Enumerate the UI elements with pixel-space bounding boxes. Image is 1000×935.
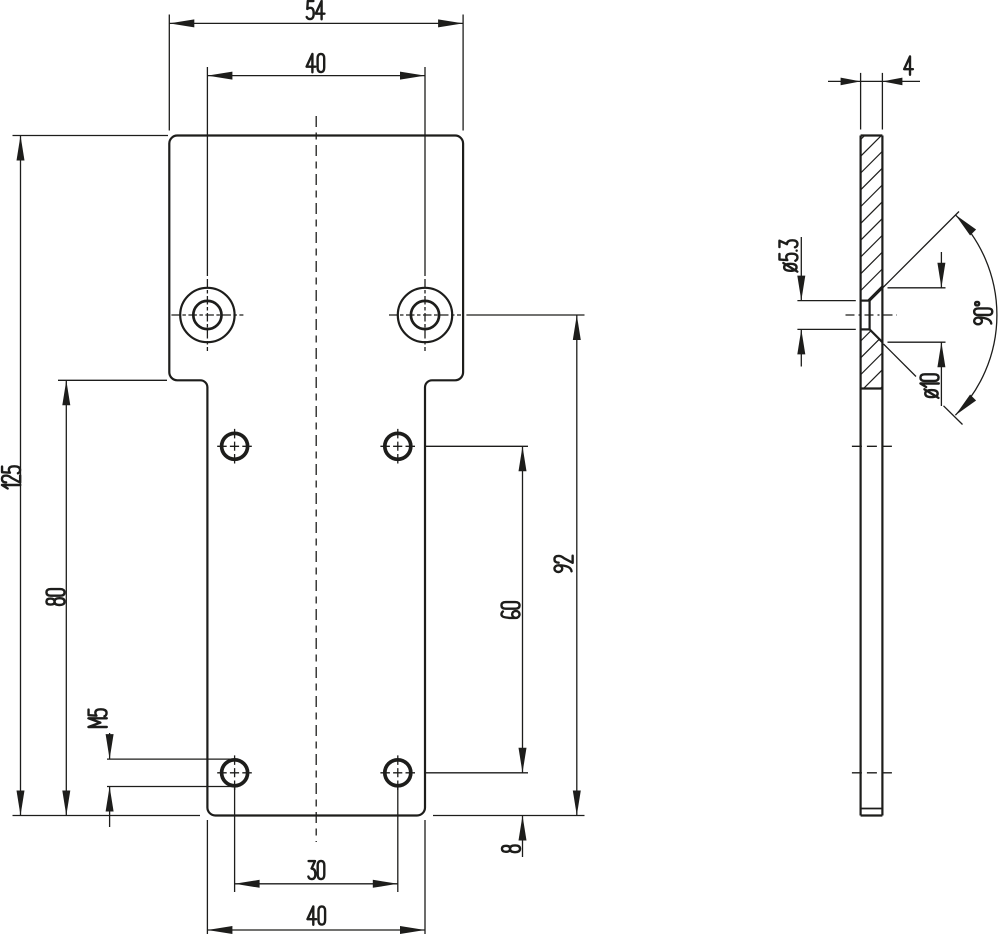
dimension 8 right bottom (522, 816, 524, 858)
label 40 bottom (308, 906, 326, 924)
dimension 4 top side view (828, 73, 920, 130)
label M5 (88, 709, 106, 727)
dimension 60 right (424, 446, 528, 773)
hole big right center cross (389, 279, 461, 351)
vertical centerline front view (315, 116, 317, 842)
hole small bottom-left center cross (217, 755, 252, 790)
hatching lines (845, 100, 900, 441)
plate outline front view (169, 136, 463, 816)
dimension 92 right (433, 315, 585, 816)
label 30 (308, 861, 324, 879)
side view outline (861, 136, 883, 816)
label 40 top (307, 54, 325, 72)
dimension 40 bottom (207, 820, 425, 934)
hole small top-right M5 (385, 433, 411, 459)
hole small top-right center cross (380, 429, 415, 464)
hidden hole line bottom side view (852, 772, 894, 774)
hole small bottom-right center cross (380, 755, 415, 790)
dimension M5 leader lines (107, 733, 231, 827)
dimension diameter 10 (884, 252, 946, 406)
hole small top-left M5 (222, 433, 248, 459)
dimension 40 top (207, 67, 425, 276)
dimension 125 left (13, 136, 169, 816)
hole big left center cross (171, 279, 243, 351)
label 54 (307, 1, 325, 19)
countersunk hole section profile (861, 288, 883, 342)
hole small top-left center cross (217, 429, 252, 464)
dimension 54 top (169, 15, 463, 131)
bottom corner tangent line (861, 808, 883, 810)
section boundary line (861, 387, 883, 389)
label 125 (2, 466, 20, 488)
hole big left countersunk outer circle (180, 288, 234, 342)
label 8 (502, 845, 520, 852)
label 4 (904, 56, 913, 74)
dimension 80 left (13, 380, 201, 815)
hidden hole line top side view (852, 445, 894, 447)
dimension 30 bottom (235, 786, 398, 892)
hole small bottom-right M5 (385, 760, 411, 786)
hole big right inner circle (411, 301, 439, 329)
label 60 (501, 602, 519, 618)
hole big left inner circle (193, 301, 221, 329)
hole axis centerline side view (846, 314, 898, 316)
dimension diameter 5.3 (797, 237, 855, 367)
label diameter 5.3 (779, 240, 797, 271)
dimension 90 degrees angle (883, 212, 997, 425)
hole big right countersunk outer circle (398, 288, 452, 342)
label diameter 10 (920, 374, 938, 398)
label 90 degrees (974, 302, 992, 324)
label 92 (554, 556, 572, 572)
hole small bottom-left M5 (222, 760, 248, 786)
label 80 (46, 589, 64, 605)
